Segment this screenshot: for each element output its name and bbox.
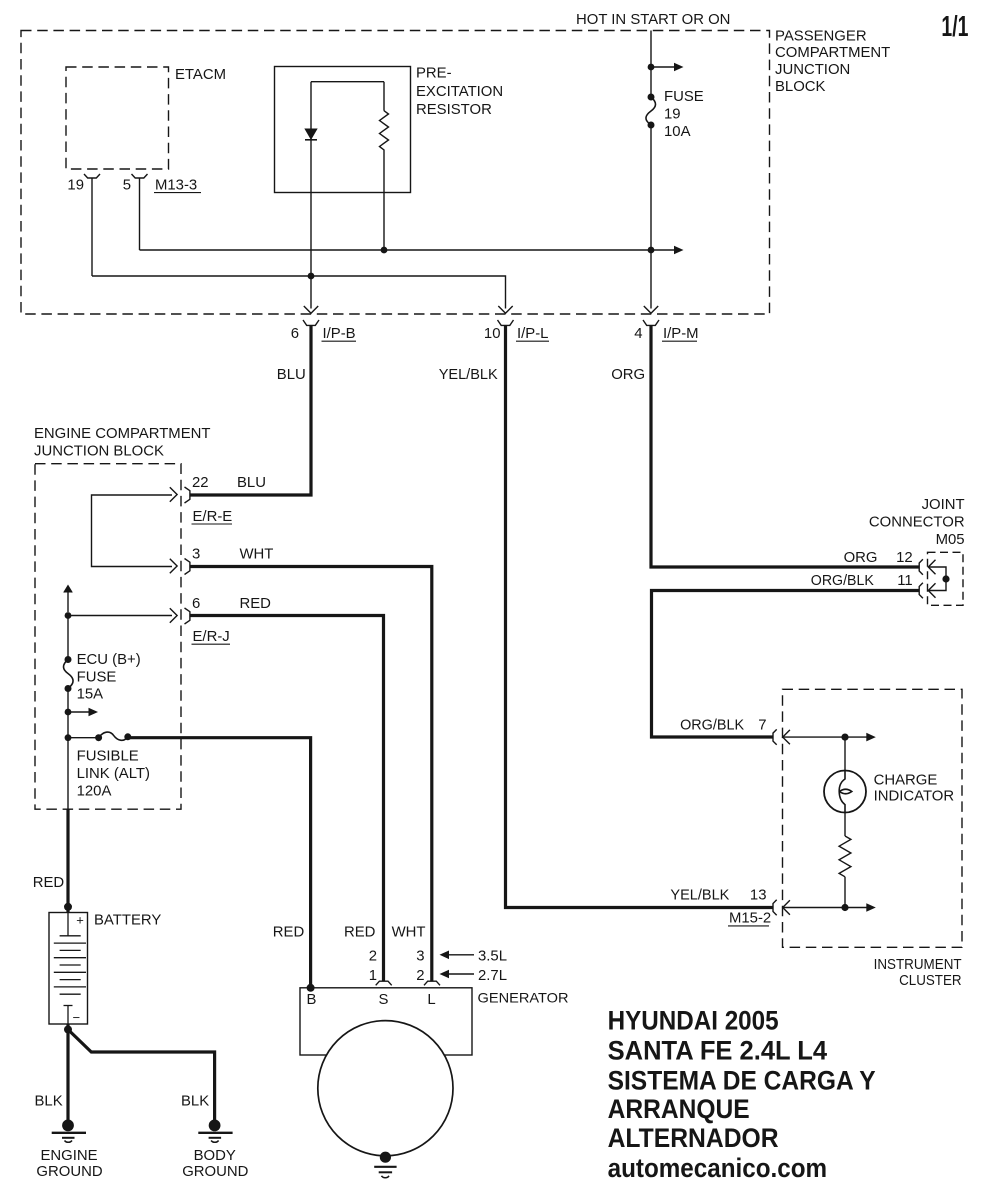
svg-text:22: 22 — [192, 475, 209, 491]
connector M13-3 pin 5 cup — [132, 174, 148, 178]
junction dot above battery — [64, 903, 72, 911]
junction dot with branch arrow — [65, 709, 72, 716]
label FUSIBLE LINK (ALT) 120A — [77, 749, 150, 800]
wire WHT from pin 3 to generator L — [190, 567, 432, 982]
svg-text:120A: 120A — [77, 783, 112, 799]
wire below fuse — [67, 689, 69, 738]
junction dot at generator B terminal — [307, 984, 315, 992]
connector pin 7 cup — [773, 729, 777, 744]
wire BLU from I/P-B to E/R-E pin 22 — [190, 325, 311, 495]
fusible link (ALT) 120A symbol — [68, 737, 99, 739]
pre-excitation resistor box — [275, 67, 411, 193]
arrow into pin 12 — [928, 560, 935, 574]
svg-text:CHARGE: CHARGE — [874, 772, 938, 788]
svg-text:12: 12 — [896, 550, 913, 566]
svg-text:INSTRUMENT: INSTRUMENT — [874, 957, 962, 973]
svg-text:BATTERY: BATTERY — [94, 913, 161, 929]
svg-text:RED: RED — [344, 925, 376, 941]
cluster internal wire at pin 7 with out arrow — [783, 736, 869, 738]
svg-text:L: L — [427, 992, 435, 1008]
svg-text:BODY: BODY — [194, 1148, 236, 1164]
label ENGINE COMPARTMENT JUNCTION BLOCK — [34, 426, 211, 460]
svg-text:3: 3 — [416, 949, 424, 965]
svg-text:FUSIBLE: FUSIBLE — [77, 749, 139, 765]
svg-text:6: 6 — [192, 596, 200, 612]
svg-text:I/P-M: I/P-M — [663, 326, 699, 342]
svg-text:+: + — [76, 913, 84, 928]
wire down to charge indicator — [844, 737, 846, 770]
svg-text:ECU (B+): ECU (B+) — [77, 652, 141, 668]
svg-text:SISTEMA DE CARGA Y: SISTEMA DE CARGA Y — [608, 1065, 876, 1095]
junction dot (fuse line to upper wire) — [648, 247, 655, 254]
svg-text:I/P-B: I/P-B — [323, 326, 356, 342]
arrow marker 3.5L — [446, 954, 474, 956]
svg-text:10: 10 — [484, 326, 501, 342]
svg-text:WHT: WHT — [392, 925, 426, 941]
label PRE-EXCITATION RESISTOR — [416, 66, 503, 118]
svg-text:JOINT: JOINT — [922, 497, 965, 513]
svg-text:19: 19 — [664, 107, 681, 123]
svg-text:YEL/BLK: YEL/BLK — [670, 887, 729, 903]
svg-text:WHT: WHT — [240, 547, 274, 563]
internal wire from ECU fuse node to pin 6 with up arrow — [67, 592, 69, 612]
label JOINT CONNECTOR M05 — [869, 497, 965, 548]
svg-text:automecanico.com: automecanico.com — [608, 1153, 828, 1183]
arrow into pin 6 — [170, 608, 177, 622]
internal wire linking pin 22 and pin 3 with arrows — [92, 495, 173, 567]
svg-text:7: 7 — [758, 718, 766, 734]
generator body circle — [318, 1021, 453, 1156]
svg-text:S: S — [379, 992, 389, 1008]
svg-text:HYUNDAI 2005: HYUNDAI 2005 — [608, 1005, 779, 1035]
svg-text:INDICATOR: INDICATOR — [874, 789, 955, 805]
label BODY GROUND — [182, 1148, 248, 1180]
arrow marker 2.7L — [446, 973, 474, 975]
svg-text:ORG/BLK: ORG/BLK — [811, 573, 874, 589]
body ground symbol — [198, 1120, 232, 1143]
connector pin 22 cup — [185, 487, 190, 503]
generator L terminal cup — [424, 981, 440, 985]
svg-text:ENGINE COMPARTMENT: ENGINE COMPARTMENT — [34, 426, 211, 442]
svg-text:E/R-E: E/R-E — [193, 509, 233, 525]
svg-text:FUSE: FUSE — [77, 669, 117, 685]
svg-text:M15-2: M15-2 — [729, 911, 771, 927]
svg-text:ORG: ORG — [611, 367, 645, 383]
junction dot (diode line to lower wire) — [308, 273, 315, 280]
svg-text:B: B — [307, 992, 317, 1008]
junction dot (resistor to upper wire) — [381, 247, 388, 254]
svg-text:RED: RED — [240, 596, 272, 612]
engine compartment junction block (dashed box) — [35, 464, 181, 810]
battery box — [49, 913, 88, 1025]
junction dot at ECU node — [65, 612, 72, 619]
svg-text:19: 19 — [67, 177, 84, 193]
junction dot pin 7 branch — [841, 734, 848, 741]
passenger compartment junction block (dashed box) — [21, 31, 770, 315]
svg-text:SANTA FE 2.4L L4: SANTA FE 2.4L L4 — [608, 1035, 828, 1065]
svg-text:2: 2 — [369, 949, 377, 965]
wire down to ECU fuse — [67, 616, 69, 660]
label ENGINE GROUND — [36, 1148, 102, 1180]
svg-text:10A: 10A — [664, 124, 691, 140]
svg-text:JUNCTION: JUNCTION — [775, 62, 850, 78]
label INSTRUMENT CLUSTER — [874, 957, 962, 989]
title block text — [608, 1005, 876, 1183]
svg-text:ORG/BLK: ORG/BLK — [680, 718, 744, 734]
label PASSENGER COMPARTMENT JUNCTION BLOCK — [775, 29, 890, 95]
generator box — [300, 988, 472, 1055]
wire from lamp to resistor — [844, 813, 846, 837]
wire from resistor to pin 13 branch — [844, 877, 846, 908]
generator S terminal cup — [376, 981, 392, 985]
connector pin 12 cup — [919, 559, 923, 574]
svg-text:BLU: BLU — [277, 367, 306, 383]
svg-text:2.7L: 2.7L — [478, 968, 507, 984]
wire BLK to body ground — [68, 1030, 215, 1121]
wire horizontal upper (pin5 row) with arrow out — [140, 249, 678, 251]
fuse 19 10A symbol — [648, 94, 655, 101]
instrument cluster (dashed box) — [783, 689, 963, 947]
cluster internal wire at pin 13 with out arrow — [783, 907, 869, 909]
wire from fusible link to generator B — [130, 738, 311, 988]
svg-text:11: 11 — [897, 573, 912, 589]
arrow down into pin 6 — [304, 306, 318, 313]
arrow into pin 3 — [170, 559, 177, 573]
svg-text:−: − — [73, 1010, 81, 1025]
arrow into pin 7 — [783, 730, 790, 744]
wire horizontal lower (pin19 row) to I/P-L — [92, 276, 506, 309]
svg-text:3: 3 — [192, 547, 200, 563]
svg-text:RED: RED — [33, 875, 65, 891]
charge indicator lamp — [824, 771, 866, 813]
junction dot below battery — [64, 1026, 72, 1034]
joint connector M05 (dashed box) — [928, 552, 964, 605]
svg-text:I/P-L: I/P-L — [517, 326, 548, 342]
wire ORG/BLK from pin 11 to instrument cluster pin 7 — [652, 591, 919, 738]
svg-text:PRE-: PRE- — [416, 66, 452, 82]
svg-text:PASSENGER: PASSENGER — [775, 29, 867, 45]
arrow into pin 13 — [783, 900, 790, 914]
wire from pin 5 down — [139, 178, 141, 250]
svg-text:ALTERNADOR: ALTERNADOR — [608, 1123, 779, 1153]
arrow down into pin 10 — [498, 306, 512, 313]
svg-text:4: 4 — [634, 326, 642, 342]
svg-text:GROUND: GROUND — [36, 1164, 102, 1180]
svg-text:3.5L: 3.5L — [478, 949, 507, 965]
connector M13-3 pin 19 cup — [84, 174, 100, 178]
wire fuse vertical from top edge to I/P-M — [650, 31, 652, 309]
connector pin 4 I/P-M cup — [643, 320, 659, 325]
connector pin 13 cup — [773, 900, 777, 915]
svg-text:M05: M05 — [936, 532, 965, 548]
svg-text:1: 1 — [369, 968, 377, 984]
wire BLK battery negative down to engine ground — [66, 1024, 69, 1121]
svg-text:15A: 15A — [77, 687, 104, 703]
svg-text:FUSE: FUSE — [664, 89, 704, 105]
label FUSE 19 10A — [664, 89, 704, 140]
svg-text:JUNCTION BLOCK: JUNCTION BLOCK — [34, 444, 164, 460]
svg-text:HOT IN START OR ON: HOT IN START OR ON — [576, 12, 730, 28]
arrow into pin 22 — [170, 487, 177, 501]
wire down from fusible node through box edge — [67, 738, 69, 810]
svg-text:YEL/BLK: YEL/BLK — [439, 367, 498, 383]
wire RED to battery positive — [66, 809, 69, 913]
ECU (B+) fuse 15A symbol — [65, 656, 72, 663]
junction dot at generator ground — [380, 1152, 391, 1163]
svg-text:RED: RED — [273, 925, 305, 941]
svg-text:BLK: BLK — [35, 1094, 63, 1110]
connector pin 3 cup — [185, 559, 190, 575]
connector pin 6 I/P-B cup — [303, 320, 319, 325]
battery internal plates — [54, 913, 86, 1025]
svg-text:BLOCK: BLOCK — [775, 79, 826, 95]
svg-text:COMPARTMENT: COMPARTMENT — [775, 45, 890, 61]
generator ground symbol — [374, 1166, 396, 1168]
svg-text:CONNECTOR: CONNECTOR — [869, 514, 965, 530]
svg-text:ARRANQUE: ARRANQUE — [608, 1094, 750, 1124]
connector pin 11 cup — [919, 583, 923, 598]
svg-text:13: 13 — [750, 887, 767, 903]
resistor (instrument cluster) zigzag — [839, 836, 851, 877]
svg-text:ENGINE: ENGINE — [40, 1148, 97, 1164]
label CHARGE INDICATOR — [874, 772, 955, 804]
svg-text:BLK: BLK — [181, 1094, 209, 1110]
diode (pre-excitation) — [305, 129, 317, 139]
svg-text:GENERATOR: GENERATOR — [478, 990, 569, 1006]
engine ground symbol — [52, 1120, 86, 1143]
svg-text:GROUND: GROUND — [182, 1164, 248, 1180]
svg-text:5: 5 — [123, 177, 131, 193]
wire linking diode and resistor tops — [311, 81, 384, 83]
label ECU (B+) FUSE 15A — [77, 652, 141, 703]
resistor (pre-excitation) zigzag — [380, 111, 389, 153]
diode branch vertical wire — [310, 82, 312, 309]
svg-text:CLUSTER: CLUSTER — [899, 973, 962, 989]
svg-text:E/R-J: E/R-J — [193, 629, 230, 645]
arrow into pin 11 — [928, 583, 935, 597]
joint connector internal wire pins 12-11 — [928, 567, 946, 591]
wire YEL/BLK from I/P-L to instrument cluster pin 13 — [506, 325, 773, 907]
ETACM module box — [66, 67, 169, 169]
svg-text:EXCITATION: EXCITATION — [416, 84, 503, 100]
wire from pin 19 down — [91, 178, 93, 276]
svg-text:1/1: 1/1 — [941, 11, 968, 43]
junction dot pin 13 branch — [841, 904, 848, 911]
junction dot at fusible link node — [65, 734, 72, 741]
svg-text:BLU: BLU — [237, 475, 266, 491]
wire ORG from I/P-M to joint connector pin 12 — [651, 325, 919, 567]
svg-text:M13-3: M13-3 — [155, 177, 197, 193]
svg-text:RESISTOR: RESISTOR — [416, 102, 492, 118]
junction dot inside joint connector — [942, 575, 949, 582]
svg-text:ORG: ORG — [844, 550, 878, 566]
connector pin 10 I/P-L cup — [498, 320, 514, 325]
svg-text:2: 2 — [416, 968, 424, 984]
connector pin 6 cup — [185, 608, 190, 624]
svg-text:LINK (ALT): LINK (ALT) — [77, 766, 150, 782]
resistor branch vertical wire — [383, 82, 385, 250]
arrow down into pin 4 — [644, 306, 658, 313]
svg-text:6: 6 — [291, 326, 299, 342]
junction dot with branch arrow at top — [648, 64, 655, 71]
wire RED from pin 6 to generator S — [190, 616, 384, 982]
svg-text:ETACM: ETACM — [175, 67, 226, 83]
